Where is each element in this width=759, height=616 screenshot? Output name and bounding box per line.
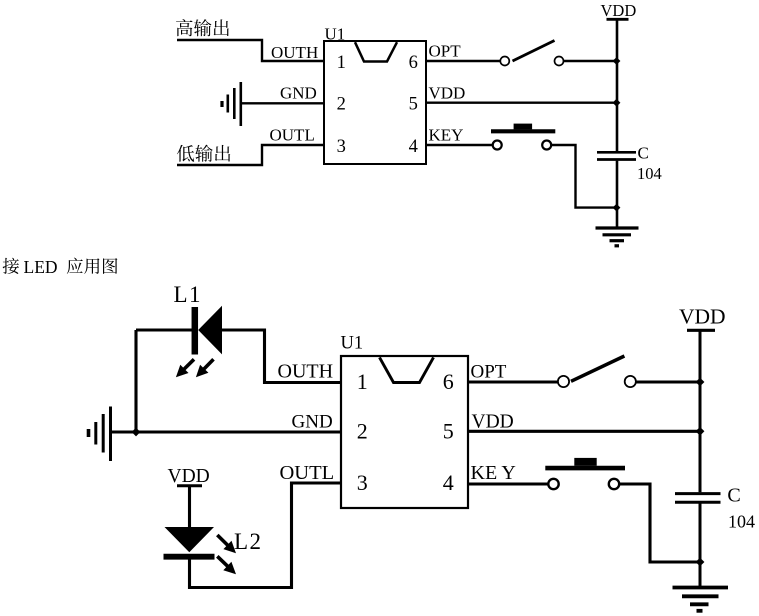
VDD rail wire (top circuit) [616, 19, 619, 151]
svg-text:U1: U1 [341, 334, 364, 354]
wire KEY pin 4 to button SW1 [426, 144, 493, 146]
wire KEY pin 4 to button (bottom) [468, 482, 549, 485]
junction node (pin5 to rail, bottom) [696, 427, 705, 436]
wire LED L2 cathode to OUTL pin 3 [190, 483, 343, 588]
svg-text:OUTL: OUTL [270, 126, 315, 145]
label 低输出 (low output) [177, 145, 230, 162]
svg-text:104: 104 [728, 512, 755, 532]
svg-text:OUTL: OUTL [280, 462, 335, 484]
wire switch to VDD rail [563, 60, 617, 62]
svg-text:GND: GND [280, 84, 317, 103]
wire button to rail elbow (bottom) [619, 484, 700, 562]
wire ground to GND pin 2 (bottom) [111, 430, 343, 433]
svg-text:104: 104 [637, 164, 662, 183]
LED L1 (diode, cathode bar + triangle) [192, 307, 199, 355]
svg-text:6: 6 [409, 53, 418, 73]
junction node (switch to rail, bottom) [696, 378, 705, 387]
VDD rail wire (bottom circuit) [699, 330, 702, 492]
wire VDD to LED L2 anode [188, 486, 191, 528]
svg-text:L1: L1 [174, 282, 203, 307]
wire LED L1 branch down to ground rail [134, 330, 137, 432]
svg-text:1: 1 [357, 369, 368, 394]
wire 高输出 to OUTH pin 1 [177, 40, 325, 61]
IC U1 (top circuit) body [324, 41, 426, 164]
svg-text:OUTH: OUTH [271, 43, 318, 62]
IC U1 (top) notch [355, 42, 397, 61]
svg-text:2: 2 [357, 419, 368, 444]
svg-text:OPT: OPT [429, 42, 462, 61]
LED L2 (diode, triangle + cathode bar) [165, 527, 215, 552]
ground symbol (bottom circuit, sideways) [109, 407, 112, 462]
svg-text:OPT: OPT [471, 362, 507, 383]
capacitor C 104 (top circuit) [597, 151, 636, 154]
wire switch to VDD rail (bottom) [636, 380, 700, 383]
svg-text:GND: GND [292, 412, 333, 433]
wire VDD pin 5 to rail (bottom) [468, 430, 700, 433]
ground (sideways, top circuit) [240, 82, 243, 126]
ground symbol (bottom of rail, bottom circuit) [673, 586, 729, 590]
junction node (switch to rail) [613, 57, 621, 65]
wire 低输出 to OUTL pin 3 [177, 145, 325, 165]
svg-text:U1: U1 [325, 25, 346, 44]
LED L1 emission arrows [184, 359, 194, 369]
svg-text:5: 5 [409, 95, 418, 115]
svg-text:1: 1 [337, 53, 346, 73]
svg-text:VDD: VDD [679, 305, 726, 329]
wire button to rail (via elbow) [551, 145, 617, 208]
ground symbol (top circuit) [596, 226, 639, 229]
LED L2 emission arrows [217, 535, 228, 546]
svg-text:VDD: VDD [601, 1, 637, 20]
caption char 接 [3, 258, 19, 274]
IC U1 (bottom circuit) body [341, 356, 468, 508]
junction node (button wire to rail) [613, 204, 621, 212]
svg-text:OUTH: OUTH [278, 361, 334, 383]
wire VDD pin 5 to rail [426, 101, 617, 103]
junction node (button wire to rail, bottom) [696, 558, 705, 567]
svg-text:2: 2 [337, 95, 346, 115]
wire OPT pin 6 to switch S1 [426, 60, 500, 62]
svg-text:4: 4 [409, 137, 418, 157]
svg-text:4: 4 [443, 470, 454, 495]
svg-text:6: 6 [443, 369, 454, 394]
svg-text:KE Y: KE Y [471, 462, 516, 484]
switch S2 (bottom circuit) [558, 376, 569, 387]
push button SW2 (bottom circuit) [548, 479, 558, 489]
wire OPT pin 6 to switch (bottom) [468, 380, 558, 383]
svg-text:VDD: VDD [168, 466, 210, 487]
junction node (pin5 to rail) [613, 99, 621, 107]
switch S1 (top circuit) [500, 57, 509, 66]
wire ground riser to LED L1 anode [136, 328, 192, 331]
svg-text:KEY: KEY [429, 126, 464, 145]
svg-text:L2: L2 [234, 529, 263, 554]
svg-text:VDD: VDD [472, 412, 514, 433]
svg-text:5: 5 [443, 419, 454, 444]
IC U1 (bottom) notch [380, 357, 434, 382]
svg-text:LED: LED [24, 257, 58, 277]
svg-text:3: 3 [337, 137, 346, 157]
wire LED L1 to OUTH pin 1 [222, 330, 342, 383]
svg-text:C: C [727, 485, 740, 507]
svg-text:VDD: VDD [429, 84, 466, 103]
caption chars 应用图 [67, 258, 118, 274]
junction node (L1 branch to GND wire) [132, 428, 141, 437]
label 高输出 (high output) [176, 19, 229, 36]
capacitor C 104 (bottom circuit) [675, 492, 721, 495]
svg-text:C: C [638, 144, 649, 163]
wire ground to GND pin 2 [241, 102, 325, 104]
push button SW1 (top circuit) [493, 141, 502, 150]
svg-text:3: 3 [357, 470, 368, 495]
